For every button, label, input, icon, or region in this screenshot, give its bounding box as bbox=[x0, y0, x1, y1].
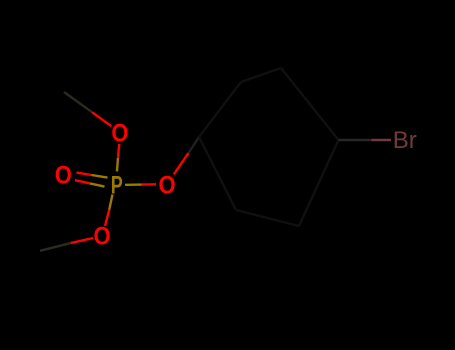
svg-text:O: O bbox=[111, 119, 128, 147]
ring bond C6-C1 bbox=[199, 137, 236, 210]
double bond P=O lower line bbox=[75, 180, 90, 183]
double bond P=O upper line bbox=[77, 173, 92, 175]
ring bond C3-C4 bbox=[281, 68, 339, 140]
svg-text:O: O bbox=[55, 161, 72, 189]
svg-text:O: O bbox=[93, 222, 110, 250]
bond P-O3 (horizontal right) bbox=[125, 183, 142, 186]
bond O3-C1 (ester oxygen to ring carbon) bbox=[174, 153, 189, 174]
svg-text:O: O bbox=[158, 171, 175, 199]
bond O2-CH3 (top methyl) bbox=[92, 112, 111, 126]
bond O4-CH3 (bottom methyl) bbox=[71, 238, 93, 243]
bond P-O2 (vertical up) bbox=[117, 158, 118, 172]
ring bond C2-C3 bbox=[241, 68, 281, 82]
ring bond C5-C6 bbox=[236, 210, 299, 226]
svg-text:Br: Br bbox=[393, 127, 417, 154]
bond C4-Br bbox=[339, 139, 372, 141]
ring bond C4-C5 bbox=[299, 140, 339, 226]
bond P-O4 (down left) bbox=[109, 195, 112, 210]
ring bond C1-C2 bbox=[199, 82, 241, 137]
